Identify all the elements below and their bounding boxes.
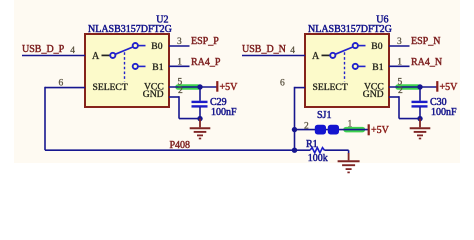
svg-text:1: 1 (348, 120, 353, 130)
svg-text:2: 2 (398, 86, 403, 96)
svg-text:3: 3 (177, 37, 182, 47)
svg-text:USB_D_P: USB_D_P (22, 44, 65, 55)
svg-text:+5V: +5V (220, 82, 239, 93)
svg-text:A: A (312, 51, 320, 62)
svg-text:2: 2 (304, 121, 309, 131)
svg-text:P408: P408 (170, 140, 191, 151)
svg-text:B0: B0 (151, 41, 162, 52)
svg-text:SJ1: SJ1 (317, 110, 331, 121)
svg-text:ESP_N: ESP_N (411, 36, 440, 47)
svg-text:NLASB3157DFT2G: NLASB3157DFT2G (88, 24, 172, 35)
svg-text:GND: GND (363, 89, 384, 100)
svg-text:6: 6 (280, 78, 285, 88)
svg-text:100nF: 100nF (431, 107, 457, 118)
svg-text:1: 1 (397, 57, 402, 67)
svg-text:R1: R1 (306, 139, 318, 150)
svg-text:+5V: +5V (440, 82, 459, 93)
svg-text:B1: B1 (372, 62, 383, 73)
svg-text:RA4_P: RA4_P (191, 57, 221, 68)
svg-text:USB_D_N: USB_D_N (242, 44, 286, 55)
svg-text:SELECT: SELECT (313, 82, 348, 93)
svg-text:SELECT: SELECT (93, 82, 128, 93)
svg-text:100nF: 100nF (211, 107, 237, 118)
svg-text:4: 4 (290, 46, 295, 56)
svg-text:1: 1 (177, 57, 182, 67)
svg-text:3: 3 (397, 37, 402, 47)
svg-text:A: A (92, 51, 100, 62)
svg-text:ESP_P: ESP_P (191, 36, 219, 47)
svg-text:2: 2 (178, 86, 183, 96)
svg-text:4: 4 (70, 46, 75, 56)
svg-text:100k: 100k (308, 153, 328, 164)
svg-text:+5V: +5V (371, 125, 390, 136)
svg-text:B1: B1 (152, 62, 163, 73)
svg-text:NLASB3157DFT2G: NLASB3157DFT2G (308, 24, 392, 35)
svg-text:RA4_N: RA4_N (411, 57, 442, 68)
svg-text:GND: GND (143, 89, 164, 100)
svg-text:B0: B0 (371, 41, 382, 52)
svg-text:6: 6 (59, 78, 64, 88)
